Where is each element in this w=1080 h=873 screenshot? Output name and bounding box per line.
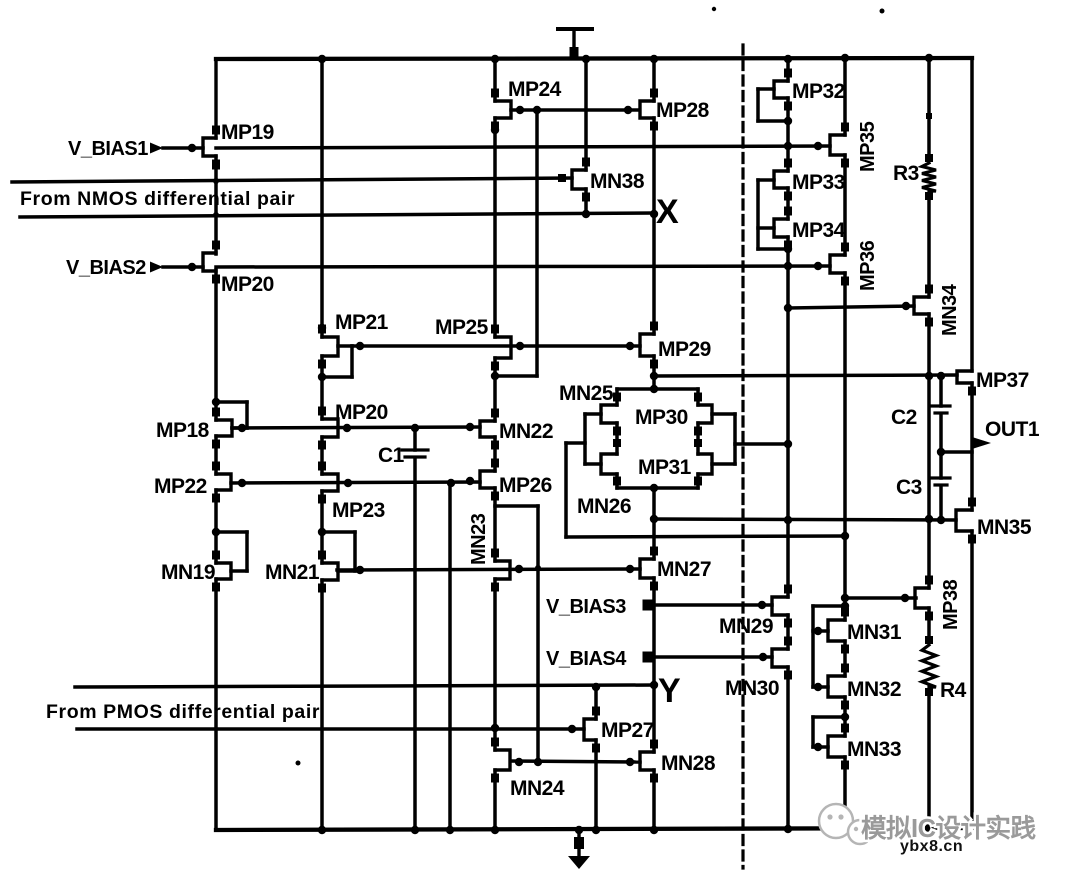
svg-text:MN38: MN38 [590,170,645,193]
svg-text:MP37: MP37 [976,369,1029,392]
svg-text:R3: R3 [893,162,919,185]
svg-text:MP30: MP30 [635,406,688,429]
svg-text:MP26: MP26 [499,474,552,497]
svg-text:MP36: MP36 [857,240,879,291]
svg-text:MN29: MN29 [719,615,773,638]
svg-text:ybx8.cn: ybx8.cn [900,838,963,855]
svg-text:MN23: MN23 [468,513,490,565]
svg-text:MP21: MP21 [335,311,389,334]
svg-text:C1: C1 [378,444,405,467]
svg-text:MN28: MN28 [661,752,716,775]
svg-text:OUT1: OUT1 [985,418,1040,441]
svg-text:MP20: MP20 [221,273,274,296]
svg-text:MP20: MP20 [335,401,388,424]
svg-text:V_BIAS2: V_BIAS2 [66,257,146,279]
svg-text:MN21: MN21 [265,561,320,584]
svg-text:MP29: MP29 [658,338,711,361]
svg-text:MN31: MN31 [847,621,902,644]
svg-text:MP18: MP18 [156,419,210,442]
svg-text:MP35: MP35 [857,121,879,172]
svg-text:MP22: MP22 [154,475,207,498]
svg-text:MP38: MP38 [940,579,962,630]
svg-text:MN26: MN26 [577,495,631,518]
svg-text:MN30: MN30 [725,677,779,700]
svg-text:MP19: MP19 [221,121,274,144]
svg-text:MP25: MP25 [435,316,489,339]
svg-text:MN33: MN33 [847,738,901,761]
svg-text:R4: R4 [940,679,967,702]
svg-text:X: X [656,193,679,231]
svg-text:MN19: MN19 [161,561,215,584]
svg-text:MP32: MP32 [792,80,845,103]
svg-text:MP34: MP34 [792,219,846,242]
svg-text:MP27: MP27 [601,719,654,742]
svg-text:MN35: MN35 [977,516,1032,539]
svg-text:MN24: MN24 [510,777,565,800]
svg-text:MN34: MN34 [939,283,961,336]
svg-text:From PMOS differential pair: From PMOS differential pair [46,701,320,723]
svg-text:MN27: MN27 [657,558,711,581]
svg-text:MN25: MN25 [559,382,614,405]
svg-text:MP31: MP31 [638,456,692,479]
svg-text:MP24: MP24 [508,78,562,101]
svg-text:MP28: MP28 [656,99,710,122]
svg-text:C2: C2 [891,406,917,429]
svg-text:Y: Y [658,672,681,710]
svg-text:V_BIAS3: V_BIAS3 [546,596,626,618]
svg-text:MN32: MN32 [847,678,901,701]
svg-text:MP23: MP23 [332,499,385,522]
svg-text:MP33: MP33 [792,171,845,194]
svg-text:V_BIAS4: V_BIAS4 [546,648,627,670]
svg-text:MN22: MN22 [499,420,553,443]
svg-text:From NMOS differential pair: From NMOS differential pair [20,188,295,210]
svg-text:V_BIAS1: V_BIAS1 [68,138,148,160]
svg-text:C3: C3 [896,476,922,499]
